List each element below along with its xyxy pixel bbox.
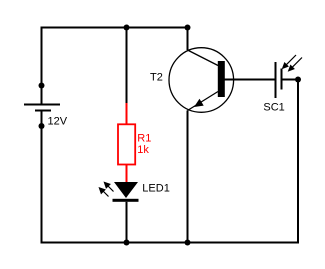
LED LED1 light arrow 1 xyxy=(104,182,114,192)
node top rail / resistor branch junction xyxy=(124,25,130,31)
svg-text:R1: R1 xyxy=(137,133,151,145)
wire bottom rail xyxy=(41,242,300,244)
wire base lead to solar cell xyxy=(224,79,275,81)
svg-text:T2: T2 xyxy=(150,72,163,84)
transistor T2 collector diagonal xyxy=(188,50,219,66)
LED LED1 light arrow 2 xyxy=(99,187,109,197)
wire left vertical upper (battery branch) xyxy=(41,27,43,105)
wire resistor anode lead (red) xyxy=(126,103,128,124)
solar cell SC1 light arrow 2 xyxy=(288,58,302,72)
node bottom rail / LED branch junction xyxy=(124,240,130,246)
resistor R1 body xyxy=(118,124,135,164)
wire emitter vertical xyxy=(187,111,189,244)
wire right vertical down xyxy=(297,80,299,244)
battery 12V positive plate xyxy=(24,104,60,106)
wire LED cathode down xyxy=(126,202,128,243)
transistor T2 base bar xyxy=(218,61,225,97)
node battery - terminal xyxy=(39,123,45,129)
wire top rail xyxy=(41,27,189,29)
svg-text:12V: 12V xyxy=(48,116,68,128)
solar cell SC1 short plate xyxy=(281,69,283,90)
node bottom rail / emitter junction xyxy=(185,240,191,246)
solar cell SC1 long plate xyxy=(275,62,277,98)
transistor T2 body circle xyxy=(169,48,234,113)
LED LED1 cathode bar xyxy=(113,199,139,202)
node top rail / collector junction xyxy=(185,25,191,31)
svg-text:SC1: SC1 xyxy=(263,102,284,114)
transistor T2 emitter arrow xyxy=(194,99,204,107)
node solar cell output junction xyxy=(295,77,301,83)
wire solar cell output xyxy=(282,79,299,81)
wire resistor to LED (red) xyxy=(126,165,128,183)
transistor T2 emitter diagonal xyxy=(188,92,219,111)
solar cell SC1 light arrow 1 xyxy=(282,55,296,69)
wire collector vertical xyxy=(187,28,189,51)
LED LED1 anode triangle xyxy=(114,182,138,198)
svg-text:1k: 1k xyxy=(137,144,149,156)
battery 12V negative plate xyxy=(35,110,51,112)
svg-text:LED1: LED1 xyxy=(142,183,170,195)
node battery + terminal xyxy=(39,83,45,89)
wire left vertical lower xyxy=(41,112,43,244)
wire resistor branch upper xyxy=(126,28,128,104)
